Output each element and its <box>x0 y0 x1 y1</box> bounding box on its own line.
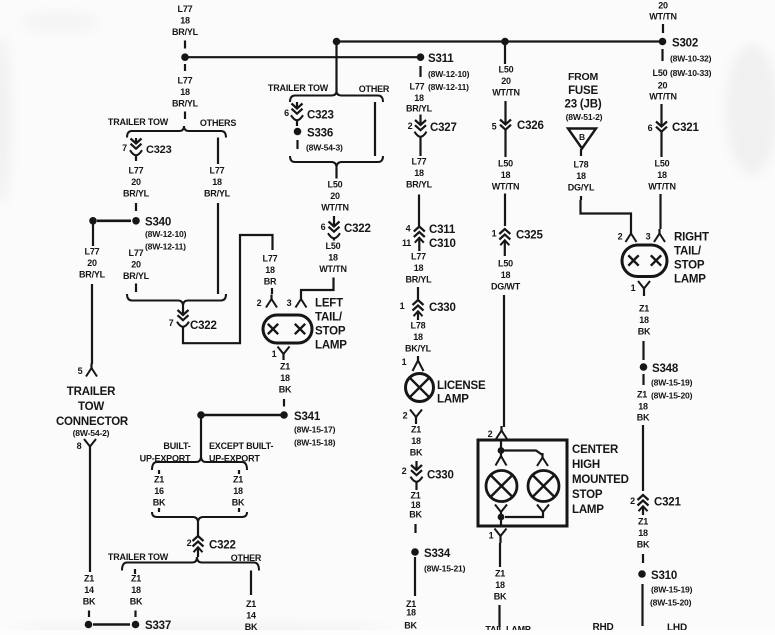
svg-text:18: 18 <box>280 373 290 383</box>
svg-text:18: 18 <box>406 608 416 618</box>
svg-text:BK: BK <box>153 498 166 508</box>
svg-text:C322: C322 <box>344 223 371 235</box>
wire <box>283 399 285 407</box>
svg-text:BK: BK <box>232 498 245 508</box>
svg-text:TAIL LAMP: TAIL LAMP <box>485 624 531 630</box>
wire <box>271 288 273 294</box>
wire horizontal bus upper <box>336 40 663 42</box>
svg-text:2: 2 <box>488 429 493 439</box>
wire other branch upper <box>374 102 376 156</box>
svg-text:23 (JB): 23 (JB) <box>565 99 602 111</box>
svg-text:TRAILER TOW: TRAILER TOW <box>268 83 329 93</box>
svg-text:18: 18 <box>501 170 511 180</box>
svg-text:L50: L50 <box>653 68 668 78</box>
svg-text:(8W-10-33): (8W-10-33) <box>670 68 712 78</box>
svg-text:Z1: Z1 <box>233 474 243 484</box>
splice S336 <box>294 128 302 136</box>
svg-text:18: 18 <box>639 315 649 325</box>
svg-text:1: 1 <box>631 283 636 293</box>
svg-text:20: 20 <box>87 258 97 268</box>
svg-text:DG/YL: DG/YL <box>568 183 595 193</box>
svg-text:S348: S348 <box>652 363 679 375</box>
svg-text:(8W-51-2): (8W-51-2) <box>566 112 603 122</box>
svg-text:S310: S310 <box>651 570 677 582</box>
wire long run to CHMSL <box>503 295 505 427</box>
splice branch dot for export split <box>197 411 205 419</box>
svg-text:RIGHT: RIGHT <box>674 232 709 244</box>
svg-text:RHD: RHD <box>592 622 613 630</box>
svg-text:LAMP: LAMP <box>315 340 347 352</box>
svg-text:Z1: Z1 <box>637 390 647 400</box>
wire <box>135 284 137 293</box>
svg-text:S336: S336 <box>307 128 333 140</box>
svg-text:STOP: STOP <box>315 326 346 338</box>
connector C321 pin 2 <box>638 495 649 500</box>
wire other branch <box>250 571 252 596</box>
svg-text:OTHER: OTHER <box>359 84 390 94</box>
fork below CHMSL bulb 2 <box>537 505 543 513</box>
brace split TRAILER TOW / OTHERS <box>127 126 226 138</box>
svg-text:BR/YL: BR/YL <box>123 271 150 281</box>
svg-text:20: 20 <box>131 177 141 187</box>
svg-text:FUSE: FUSE <box>568 85 598 97</box>
svg-text:18: 18 <box>576 171 586 181</box>
connector C327 pin 2 <box>419 115 421 125</box>
svg-text:L50: L50 <box>328 179 343 189</box>
wire <box>418 195 420 227</box>
svg-text:(8W-15-19): (8W-15-19) <box>651 378 693 388</box>
svg-text:L50: L50 <box>326 241 341 251</box>
svg-text:18: 18 <box>501 270 511 280</box>
wire <box>504 194 506 227</box>
wire tick right above merge <box>238 508 240 512</box>
svg-text:L50: L50 <box>498 258 513 268</box>
wire into CHMSL <box>500 440 502 448</box>
svg-text:1: 1 <box>489 531 494 541</box>
svg-text:L77: L77 <box>178 75 193 85</box>
svg-text:Z1: Z1 <box>246 599 256 609</box>
wire <box>332 278 334 284</box>
svg-text:LAMP: LAMP <box>572 504 604 516</box>
svg-text:20: 20 <box>330 191 340 201</box>
svg-text:L77: L77 <box>178 4 193 14</box>
svg-text:5: 5 <box>78 366 83 376</box>
svg-text:BR/YL: BR/YL <box>406 104 433 114</box>
connector C311 pin 4 / C310 pin 11 <box>414 227 425 232</box>
svg-text:L78: L78 <box>411 320 426 330</box>
wire to CHMSL bulb 2 <box>501 451 543 456</box>
svg-text:C321: C321 <box>672 122 699 134</box>
pin 5 terminal fork <box>90 364 92 370</box>
svg-text:C330: C330 <box>427 470 454 482</box>
svg-text:18: 18 <box>212 177 222 187</box>
svg-text:L50: L50 <box>655 158 670 168</box>
wire <box>662 24 664 33</box>
wire below left splice dot <box>92 225 94 247</box>
brace split export variants <box>152 456 247 470</box>
svg-text:2: 2 <box>257 298 262 308</box>
splice dot on upper bus <box>333 38 341 46</box>
svg-text:BK: BK <box>404 621 417 631</box>
wire <box>419 66 421 77</box>
svg-text:(8W-12-11): (8W-12-11) <box>428 82 469 92</box>
svg-text:BK: BK <box>279 385 292 395</box>
wire <box>642 554 644 563</box>
svg-text:18: 18 <box>233 486 243 496</box>
svg-text:BR/YL: BR/YL <box>79 270 106 280</box>
CHMSL bulb 1 <box>486 471 517 502</box>
svg-text:LICENSE: LICENSE <box>437 380 486 392</box>
svg-text:WT/TN: WT/TN <box>649 12 677 22</box>
connector C321 pin 6 <box>660 104 662 126</box>
lamp element X right <box>651 255 661 265</box>
svg-text:S311: S311 <box>428 53 454 65</box>
svg-text:(8W-15-18): (8W-15-18) <box>294 438 336 448</box>
svg-text:Z1: Z1 <box>639 303 649 313</box>
svg-text:6: 6 <box>648 123 653 133</box>
lamp element X left <box>628 255 638 265</box>
wire <box>661 49 663 61</box>
svg-text:CONNECTOR: CONNECTOR <box>56 416 129 428</box>
svg-text:BK: BK <box>637 413 650 423</box>
svg-text:2: 2 <box>618 232 623 242</box>
svg-text:LAMP: LAMP <box>674 274 706 286</box>
svg-text:LHD: LHD <box>667 623 687 631</box>
svg-text:TRAILER TOW: TRAILER TOW <box>108 552 169 562</box>
svg-text:C327: C327 <box>430 122 457 134</box>
wire <box>184 41 186 49</box>
svg-text:Z1: Z1 <box>84 573 94 583</box>
svg-text:WT/TN: WT/TN <box>321 203 349 213</box>
svg-text:C310: C310 <box>429 238 456 250</box>
wire <box>642 374 644 385</box>
wire <box>184 64 186 71</box>
brace merge upper <box>290 156 383 168</box>
connector C326 pin 5 <box>504 101 506 124</box>
svg-text:TAIL/: TAIL/ <box>674 246 702 258</box>
svg-text:3: 3 <box>287 298 292 308</box>
svg-text:18: 18 <box>638 528 648 538</box>
svg-text:DG/WT: DG/WT <box>491 282 521 292</box>
wire <box>641 584 643 626</box>
center high mounted stop lamp enclosure <box>478 440 567 526</box>
splice dot on upper bus for C326 feed <box>501 38 509 46</box>
svg-text:18: 18 <box>414 168 424 178</box>
splice S348 <box>640 363 648 371</box>
svg-text:EXCEPT BUILT-: EXCEPT BUILT- <box>209 441 273 451</box>
svg-text:BR/YL: BR/YL <box>405 275 432 285</box>
wire tick right <box>238 470 240 474</box>
svg-text:18: 18 <box>265 265 275 275</box>
svg-text:L77: L77 <box>85 246 100 256</box>
wire <box>335 168 337 179</box>
wire loop from C322 to left lamp pin 2 <box>183 235 273 343</box>
lamp element X left <box>268 324 278 334</box>
svg-text:(8W-12-10): (8W-12-10) <box>145 229 187 239</box>
svg-text:C322: C322 <box>190 320 217 332</box>
svg-text:L77: L77 <box>263 253 278 263</box>
svg-text:S334: S334 <box>424 548 451 560</box>
svg-text:C323: C323 <box>146 144 172 156</box>
svg-text:1: 1 <box>402 357 407 367</box>
svg-text:BK: BK <box>83 597 96 607</box>
svg-text:20: 20 <box>501 76 511 86</box>
CHMSL bulb 2 <box>528 471 559 502</box>
svg-text:B: B <box>579 132 585 142</box>
wire <box>580 196 582 200</box>
svg-text:S341: S341 <box>294 411 321 423</box>
svg-text:1: 1 <box>492 229 497 239</box>
svg-text:BK: BK <box>410 448 423 458</box>
svg-text:C323: C323 <box>307 110 334 122</box>
brace split trailer tow / other bottom <box>122 557 259 571</box>
svg-text:C326: C326 <box>517 120 544 132</box>
svg-text:OTHERS: OTHERS <box>200 118 237 128</box>
wire <box>580 149 582 156</box>
svg-text:STOP: STOP <box>674 260 705 272</box>
svg-text:18: 18 <box>657 170 667 180</box>
wire <box>134 611 136 618</box>
svg-text:Z1: Z1 <box>410 490 420 500</box>
svg-text:18: 18 <box>131 585 141 595</box>
svg-text:L50: L50 <box>499 64 514 74</box>
svg-text:20: 20 <box>131 260 141 270</box>
svg-text:WT/TN: WT/TN <box>319 264 347 274</box>
splice S302 <box>659 38 667 46</box>
wire from fuse to right lamp pin 2 <box>581 200 632 229</box>
wire bulb2 to junction <box>505 512 543 517</box>
connector C323 pin 7 <box>135 138 137 143</box>
license lamp <box>406 374 434 402</box>
wire tick left <box>158 470 160 474</box>
wire <box>91 284 93 364</box>
svg-text:(8W-15-20): (8W-15-20) <box>650 598 692 608</box>
svg-text:C321: C321 <box>654 497 681 509</box>
svg-text:2: 2 <box>408 121 413 131</box>
wire <box>89 453 91 572</box>
fork to CHMSL bulb 2 <box>541 453 543 459</box>
svg-text:S302: S302 <box>672 38 698 50</box>
svg-text:L77: L77 <box>411 251 426 261</box>
svg-text:18: 18 <box>180 87 190 97</box>
lamp element X right <box>295 324 305 334</box>
wire <box>217 203 219 294</box>
svg-text:BK: BK <box>245 622 258 630</box>
wire between splice dots <box>97 220 131 223</box>
svg-text:BUILT-: BUILT- <box>163 441 190 451</box>
svg-text:Z1: Z1 <box>131 573 141 583</box>
wire <box>184 112 186 120</box>
wire <box>88 611 90 618</box>
svg-text:20: 20 <box>658 81 668 91</box>
svg-text:L77: L77 <box>129 165 144 175</box>
svg-text:FROM: FROM <box>568 71 599 83</box>
svg-text:WT/TN: WT/TN <box>648 182 676 192</box>
wire down to right lamp pin 3 <box>659 194 661 229</box>
svg-text:S337: S337 <box>145 620 171 630</box>
svg-text:BK/YL: BK/YL <box>405 344 432 354</box>
svg-text:L50: L50 <box>498 158 513 168</box>
svg-text:(8W-15-17): (8W-15-17) <box>294 425 336 435</box>
svg-text:L77: L77 <box>129 248 144 258</box>
svg-text:18: 18 <box>411 436 421 446</box>
fuse feed triangle B <box>568 129 596 149</box>
svg-text:C311: C311 <box>429 224 456 236</box>
wire <box>296 140 298 149</box>
svg-text:20: 20 <box>658 1 668 11</box>
svg-text:18: 18 <box>638 402 648 412</box>
svg-text:7: 7 <box>122 143 127 153</box>
svg-text:1: 1 <box>400 301 405 311</box>
svg-text:3: 3 <box>646 232 651 242</box>
splice S310 <box>638 570 646 578</box>
wire <box>499 543 501 567</box>
brace merge export variants <box>152 512 247 523</box>
svg-text:BK: BK <box>494 592 507 602</box>
connector C330 pin 2 <box>415 461 417 469</box>
junction dot CHMSL bottom <box>498 514 505 521</box>
splice S334 <box>411 548 419 556</box>
wire <box>642 425 644 491</box>
svg-text:BR/YL: BR/YL <box>406 180 433 190</box>
fork to CHMSL bulb 1 <box>500 452 502 458</box>
svg-text:WT/TN: WT/TN <box>492 88 520 98</box>
svg-text:TRAILER TOW: TRAILER TOW <box>108 117 169 127</box>
svg-text:TAIL/: TAIL/ <box>315 312 343 324</box>
svg-text:BR/YL: BR/YL <box>172 27 199 37</box>
junction dot CHMSL top <box>498 447 505 454</box>
svg-text:18: 18 <box>495 580 505 590</box>
connector C323 pin 6 <box>296 102 298 108</box>
svg-text:11: 11 <box>402 238 411 248</box>
svg-text:6: 6 <box>321 222 326 232</box>
svg-text:8: 8 <box>77 441 82 451</box>
wire <box>135 203 137 211</box>
brace split trailer tow / other upper <box>290 91 383 102</box>
svg-text:BR/YL: BR/YL <box>123 189 150 199</box>
splice node column A <box>181 53 189 61</box>
svg-text:BK: BK <box>637 540 650 550</box>
svg-text:(8W-15-21): (8W-15-21) <box>424 564 466 574</box>
svg-text:BR/YL: BR/YL <box>172 99 199 109</box>
svg-text:Z1: Z1 <box>638 516 648 526</box>
svg-text:4: 4 <box>406 224 411 234</box>
svg-text:CENTER: CENTER <box>572 444 619 456</box>
svg-text:LEFT: LEFT <box>315 298 343 310</box>
svg-text:18: 18 <box>180 16 190 26</box>
splice S340 <box>132 217 140 225</box>
connector C322 pin 6 <box>333 216 335 226</box>
splice branch dot left of S340 <box>89 217 97 225</box>
wire <box>498 605 500 627</box>
svg-text:BR: BR <box>264 277 277 287</box>
svg-text:(8W-15-20): (8W-15-20) <box>651 391 693 401</box>
svg-text:14: 14 <box>84 585 94 595</box>
svg-text:WT/TN: WT/TN <box>492 182 520 192</box>
wire <box>414 524 416 533</box>
svg-text:18: 18 <box>414 93 424 103</box>
svg-text:(8W-12-10): (8W-12-10) <box>428 69 470 79</box>
right tail/stop lamp body <box>622 245 667 277</box>
svg-text:(8W-54-2): (8W-54-2) <box>73 428 110 438</box>
svg-text:18: 18 <box>414 263 424 273</box>
wire <box>134 569 136 574</box>
splice S341 <box>280 411 288 419</box>
svg-text:2: 2 <box>402 466 407 476</box>
svg-text:C330: C330 <box>429 302 456 314</box>
svg-text:18: 18 <box>411 500 421 510</box>
wire out of CHMSL <box>500 517 502 526</box>
svg-text:2: 2 <box>187 538 192 548</box>
connector C330 pin 1 <box>417 287 419 301</box>
wire tick left above merge <box>158 508 160 512</box>
svg-text:LAMP: LAMP <box>437 394 469 406</box>
svg-text:BK: BK <box>638 327 651 337</box>
splice dot left <box>85 621 93 629</box>
svg-text:18: 18 <box>413 332 423 342</box>
wire column B stem <box>335 42 337 92</box>
svg-text:HIGH: HIGH <box>572 459 600 471</box>
svg-text:BK: BK <box>409 509 422 519</box>
wire between S341 dots <box>201 414 284 417</box>
svg-text:BK: BK <box>130 597 143 607</box>
svg-text:L77: L77 <box>210 165 225 175</box>
svg-text:Z1: Z1 <box>411 424 421 434</box>
connector C322 pin 7 <box>182 306 184 314</box>
svg-text:(8W-12-11): (8W-12-11) <box>145 242 186 252</box>
svg-text:5: 5 <box>492 122 497 132</box>
svg-text:6: 6 <box>284 108 289 118</box>
wire between splices <box>93 623 130 626</box>
svg-text:Z1: Z1 <box>280 361 290 371</box>
wire <box>642 341 644 360</box>
wire <box>414 557 416 596</box>
svg-text:(8W-10-32): (8W-10-32) <box>670 54 712 64</box>
svg-text:(8W-54-3): (8W-54-3) <box>306 143 343 153</box>
svg-text:MOUNTED: MOUNTED <box>572 474 629 486</box>
svg-text:STOP: STOP <box>572 489 603 501</box>
svg-text:18: 18 <box>328 253 338 263</box>
brace merge to C322 <box>127 294 226 306</box>
svg-text:Z1: Z1 <box>495 568 505 578</box>
wire stem to export brace <box>200 415 202 456</box>
svg-text:C325: C325 <box>516 230 543 242</box>
connector C322 pin 2 <box>197 523 199 537</box>
svg-text:Z1: Z1 <box>154 474 164 484</box>
svg-text:2: 2 <box>403 411 408 421</box>
svg-text:2: 2 <box>630 496 635 506</box>
svg-text:C322: C322 <box>209 540 236 552</box>
svg-text:WT/TN: WT/TN <box>649 92 677 102</box>
left tail/stop lamp body <box>263 315 312 343</box>
svg-text:L77: L77 <box>412 156 427 166</box>
svg-text:L77: L77 <box>410 82 425 92</box>
svg-text:TRAILER: TRAILER <box>67 386 116 398</box>
connector C325 pin 1 <box>499 229 510 234</box>
fork below CHMSL bulb 1 <box>495 505 501 513</box>
svg-text:16: 16 <box>154 486 164 496</box>
wire horizontal bus lower <box>185 56 420 58</box>
wire from C322 pin6 path to pin 3 <box>301 284 334 296</box>
wire <box>504 42 506 65</box>
svg-text:S340: S340 <box>145 217 171 229</box>
svg-text:14: 14 <box>246 611 256 621</box>
svg-text:(8W-15-19): (8W-15-19) <box>651 585 693 595</box>
wire OTHERS branch <box>217 138 219 165</box>
svg-text:1: 1 <box>272 349 277 359</box>
svg-text:TOW: TOW <box>78 401 104 413</box>
splice S311 <box>417 53 425 61</box>
